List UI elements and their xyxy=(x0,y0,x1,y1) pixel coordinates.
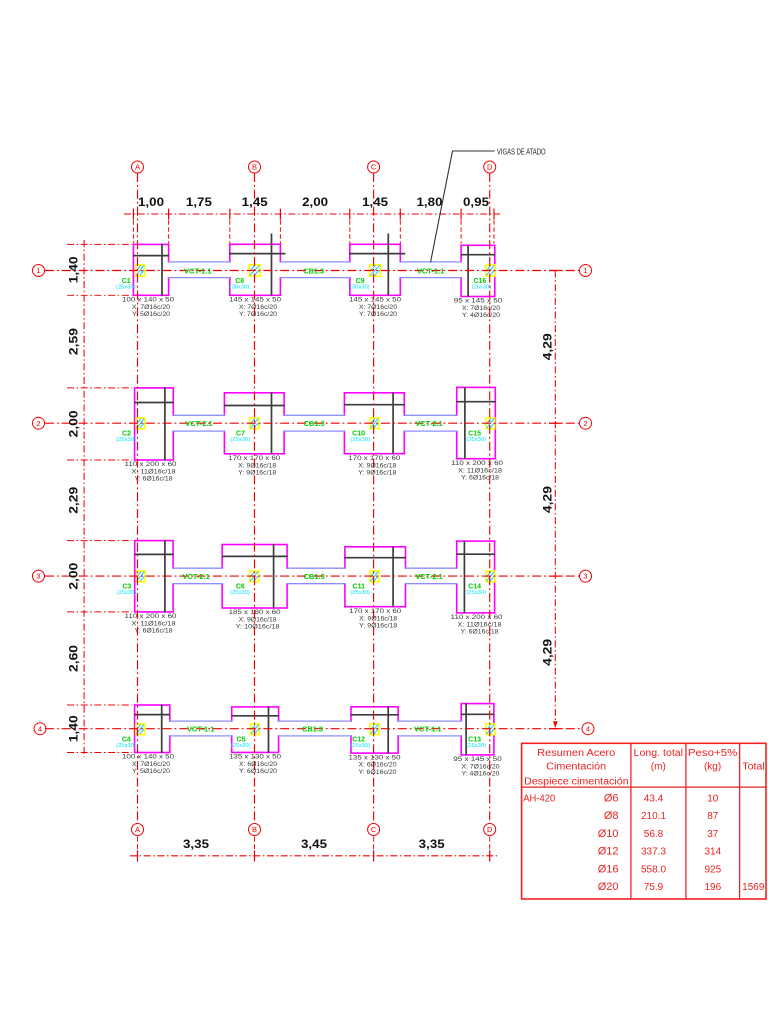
footing C2 pad outline xyxy=(135,388,174,460)
svg-text:VCT-1.1: VCT-1.1 xyxy=(187,727,215,734)
svg-text:X: 11Ø16c/18: X: 11Ø16c/18 xyxy=(458,622,502,629)
table column line 3 xyxy=(739,743,741,899)
svg-text:CB1.3: CB1.3 xyxy=(303,268,324,275)
wall line vertical C5 xyxy=(268,706,270,753)
tie beam VCT-2.1 row 2 between x=404.3 and x=456.7 xyxy=(403,416,458,430)
svg-text:X: 7Ø16c/20: X: 7Ø16c/20 xyxy=(462,764,500,771)
wall line horizontal C6 xyxy=(222,555,288,557)
wall line horizontal C4 xyxy=(134,714,170,716)
svg-text:Long. total: Long. total xyxy=(634,748,684,759)
svg-text:2,00: 2,00 xyxy=(302,195,328,209)
svg-text:CB1.3: CB1.3 xyxy=(304,574,325,581)
svg-text:75.9: 75.9 xyxy=(644,882,664,893)
svg-text:VCT-2.1: VCT-2.1 xyxy=(182,574,210,581)
column section C1 hatched square xyxy=(136,265,145,276)
wall line vertical C12 xyxy=(387,706,389,753)
svg-text:Y: 6Ø16c/20: Y: 6Ø16c/20 xyxy=(359,769,397,776)
footing C8 pad outline xyxy=(230,244,281,295)
top dimension chain line xyxy=(124,213,500,215)
svg-text:185 x 180 x 60: 185 x 180 x 60 xyxy=(229,609,281,616)
bottom dim tick xyxy=(137,850,139,861)
svg-text:4: 4 xyxy=(38,724,42,733)
column section C7 hatched square xyxy=(250,418,259,429)
svg-text:Y: 10Ø16c/18: Y: 10Ø16c/18 xyxy=(236,624,280,631)
top dim extension line xyxy=(399,220,401,243)
column section C9 hatched square xyxy=(370,265,381,276)
svg-text:135 x 130 x 50: 135 x 130 x 50 xyxy=(349,754,401,761)
grid bubble A top xyxy=(132,161,144,173)
grid bubble A bottom xyxy=(132,824,144,836)
grid axis D vertical line xyxy=(489,173,491,824)
wall line horizontal C2 xyxy=(134,402,174,404)
bottom dim tick xyxy=(373,850,375,861)
wall line horizontal C5 xyxy=(231,715,279,717)
grid axis B vertical line xyxy=(254,173,256,824)
svg-text:X: 7Ø16c/20: X: 7Ø16c/20 xyxy=(239,304,277,311)
bottom dim extension line xyxy=(373,837,375,862)
top dim tick xyxy=(229,209,231,220)
svg-text:37: 37 xyxy=(707,829,719,840)
svg-text:VIGAS DE ATADO: VIGAS DE ATADO xyxy=(497,147,546,156)
svg-text:1: 1 xyxy=(36,266,40,275)
svg-text:Resumen Acero: Resumen Acero xyxy=(537,748,615,759)
svg-text:(25x30): (25x30) xyxy=(466,437,486,443)
svg-text:CB1.3: CB1.3 xyxy=(302,727,323,734)
wall line vertical C13 xyxy=(465,703,467,755)
footing C16 pad outline xyxy=(461,245,495,296)
grid axis 3 horizontal line xyxy=(45,575,582,577)
svg-text:X: 6Ø16c/20: X: 6Ø16c/20 xyxy=(359,762,397,769)
svg-text:B: B xyxy=(252,825,257,834)
svg-text:(30x30): (30x30) xyxy=(230,285,250,291)
svg-text:X: 6Ø16c/20: X: 6Ø16c/20 xyxy=(239,761,277,768)
svg-text:1,45: 1,45 xyxy=(362,195,388,209)
wall line vertical C16 xyxy=(467,245,469,297)
grid bubble 1 right xyxy=(580,265,592,277)
wall line vertical C3 xyxy=(164,540,166,612)
footing C6 pad outline xyxy=(222,545,287,609)
svg-text:B: B xyxy=(252,163,257,172)
bottom dim tick xyxy=(254,850,256,861)
svg-text:Y: 5Ø16c/20: Y: 5Ø16c/20 xyxy=(132,311,170,318)
svg-text:Y: 5Ø16c/20: Y: 5Ø16c/20 xyxy=(132,768,170,775)
left dim extension line xyxy=(67,540,132,542)
table column line 1 xyxy=(630,743,632,899)
left dim extension line xyxy=(67,459,132,461)
tie beam VCT-1.1 row 1 between x=400.3 and x=461.1 xyxy=(399,263,462,277)
svg-text:196: 196 xyxy=(704,882,721,893)
svg-text:Ø6: Ø6 xyxy=(604,793,619,805)
svg-text:Y: 9Ø16c/18: Y: 9Ø16c/18 xyxy=(359,622,397,629)
svg-text:3,35: 3,35 xyxy=(419,837,445,851)
grid bubble D top xyxy=(484,161,496,173)
svg-text:210.1: 210.1 xyxy=(641,811,666,822)
grid bubble 4 right xyxy=(582,723,594,735)
grid bubble 1 left xyxy=(33,265,45,277)
svg-text:(30x30): (30x30) xyxy=(350,285,370,291)
bottom dimension chain line xyxy=(130,855,497,857)
footing C11 pad outline xyxy=(345,547,406,607)
grid bubble 3 left xyxy=(33,570,45,582)
bottom dim extension line xyxy=(137,837,139,862)
wall line vertical C7 xyxy=(271,392,273,454)
svg-text:4,29: 4,29 xyxy=(540,333,554,360)
svg-text:2,00: 2,00 xyxy=(67,562,81,589)
column section C10 hatched square xyxy=(370,418,379,429)
svg-text:Peso+5%: Peso+5% xyxy=(688,748,738,759)
footing C15 pad outline xyxy=(457,387,496,458)
svg-text:1569: 1569 xyxy=(742,882,765,893)
svg-text:100 x 140 x 50: 100 x 140 x 50 xyxy=(122,754,174,761)
svg-text:Despiece cimentación: Despiece cimentación xyxy=(524,776,629,787)
grid axis C vertical line xyxy=(373,173,375,824)
wall line horizontal C15 xyxy=(456,401,496,403)
grid bubble B bottom xyxy=(249,824,261,836)
svg-text:Y: 6Ø16c/18: Y: 6Ø16c/18 xyxy=(461,474,499,481)
svg-text:95 x 145 x 50: 95 x 145 x 50 xyxy=(453,756,502,763)
svg-text:110 x 200 x 60: 110 x 200 x 60 xyxy=(451,614,503,621)
top dim tick xyxy=(493,209,495,220)
svg-text:87: 87 xyxy=(707,811,719,822)
svg-text:AH-420: AH-420 xyxy=(523,794,555,805)
svg-text:X: 9Ø16c/18: X: 9Ø16c/18 xyxy=(239,617,277,624)
svg-text:1,00: 1,00 xyxy=(138,195,164,209)
svg-text:95 x 145 x 50: 95 x 145 x 50 xyxy=(454,298,503,305)
grid axis A vertical line xyxy=(137,173,139,824)
table column line 2 xyxy=(685,743,687,899)
top dim tick xyxy=(132,209,134,220)
svg-text:(25x30): (25x30) xyxy=(116,743,136,749)
svg-text:X: 11Ø16c/18: X: 11Ø16c/18 xyxy=(132,469,176,476)
svg-text:X: 9Ø16c/18: X: 9Ø16c/18 xyxy=(238,462,276,469)
tie beam VCT-2.1 row 2 between x=173.3 and x=224.4 xyxy=(172,416,226,430)
svg-text:1,40: 1,40 xyxy=(67,256,81,283)
svg-text:558.0: 558.0 xyxy=(641,864,666,875)
svg-text:4,29: 4,29 xyxy=(540,639,554,666)
svg-text:1,80: 1,80 xyxy=(417,195,443,209)
svg-text:X: 7Ø16c/20: X: 7Ø16c/20 xyxy=(132,761,170,768)
svg-text:Y: 9Ø16c/18: Y: 9Ø16c/18 xyxy=(238,470,276,477)
svg-text:135 x 130 x 50: 135 x 130 x 50 xyxy=(229,754,281,761)
right dim tick xyxy=(550,575,562,577)
svg-text:0,95: 0,95 xyxy=(463,195,489,209)
svg-text:Y: 9Ø16c/18: Y: 9Ø16c/18 xyxy=(358,469,396,476)
footing C9 pad outline xyxy=(350,244,401,295)
svg-text:(25x30): (25x30) xyxy=(117,590,137,596)
svg-text:170 x 170 x 60: 170 x 170 x 60 xyxy=(348,455,400,462)
footing C3 pad outline xyxy=(135,541,173,612)
top dim extension line xyxy=(279,220,281,243)
grid axis 1 horizontal line xyxy=(45,270,582,272)
wall line horizontal C1 xyxy=(133,255,169,257)
left dimension chain line xyxy=(83,240,85,757)
footing C14 pad outline xyxy=(457,541,495,613)
svg-text:VCT-2.1: VCT-2.1 xyxy=(415,421,443,428)
wall line horizontal C11 xyxy=(344,557,406,559)
svg-text:CB1.3: CB1.3 xyxy=(304,421,325,428)
svg-text:VCT-2.1: VCT-2.1 xyxy=(185,421,213,428)
svg-text:Cimentación: Cimentación xyxy=(546,761,606,772)
tie beam VCT-1.1 row 1 between x=168.6 and x=229.8 xyxy=(167,263,231,277)
footing C4 pad outline xyxy=(135,705,170,753)
svg-text:2: 2 xyxy=(583,419,587,428)
left dim extension line xyxy=(67,387,132,389)
svg-text:VCT-1.1: VCT-1.1 xyxy=(184,268,212,275)
top dim tick xyxy=(460,209,462,220)
svg-text:A: A xyxy=(135,825,140,834)
wall line vertical C1 xyxy=(161,244,163,296)
wall line vertical C10 xyxy=(392,392,394,454)
tie beam CB1.3 row 4 between x=278.6 and x=351.0 xyxy=(277,722,352,735)
tie beam CB1.3 row 2 between x=284.1 and x=344.4 xyxy=(283,416,346,430)
top dim tick xyxy=(349,209,351,220)
wall line vertical C6 xyxy=(273,544,275,609)
svg-text:X: 9Ø16c/18: X: 9Ø16c/18 xyxy=(358,462,396,469)
wall line horizontal C3 xyxy=(134,553,173,555)
svg-text:3: 3 xyxy=(583,572,587,581)
svg-text:(m): (m) xyxy=(651,761,666,772)
svg-text:4: 4 xyxy=(586,724,590,733)
svg-text:10: 10 xyxy=(707,794,719,805)
svg-text:1,45: 1,45 xyxy=(242,195,268,209)
svg-text:1,75: 1,75 xyxy=(186,195,212,209)
column section C3 hatched square xyxy=(136,571,145,582)
tie beam VCT-1.1 row 4 between x=398.1 and x=461.2 xyxy=(397,722,463,735)
column section C5 hatched square xyxy=(251,724,260,735)
top dim extension line xyxy=(132,220,134,243)
svg-text:Y: 6Ø16c/18: Y: 6Ø16c/18 xyxy=(461,629,499,636)
svg-text:X: 7Ø16c/20: X: 7Ø16c/20 xyxy=(359,304,397,311)
svg-text:Ø12: Ø12 xyxy=(598,846,619,858)
top dim tick xyxy=(279,209,281,220)
svg-text:Y: 4Ø16c/20: Y: 4Ø16c/20 xyxy=(462,312,500,319)
right dim chain arrowhead xyxy=(553,721,558,728)
svg-text:110 x 200 x 60: 110 x 200 x 60 xyxy=(125,461,177,468)
svg-text:(25x30): (25x30) xyxy=(350,743,370,749)
svg-text:Y: 7Ø16c/20: Y: 7Ø16c/20 xyxy=(239,311,277,318)
bottom dim tick xyxy=(489,850,491,861)
bottom dim extension line xyxy=(489,837,491,862)
grid axis 4 horizontal line xyxy=(45,728,582,730)
grid bubble 2 left xyxy=(33,417,45,429)
svg-text:925: 925 xyxy=(704,864,721,875)
column section C8 hatched square xyxy=(249,265,260,276)
svg-text:170 x 170 x 60: 170 x 170 x 60 xyxy=(349,608,401,615)
svg-text:A: A xyxy=(135,163,140,172)
svg-text:3: 3 xyxy=(36,572,40,581)
svg-text:337.3: 337.3 xyxy=(641,847,666,858)
column section C15 hatched square xyxy=(486,418,495,429)
column section C16 hatched square xyxy=(486,265,495,276)
svg-text:X: 7Ø16c/20: X: 7Ø16c/20 xyxy=(132,304,170,311)
right dim tick xyxy=(550,422,562,424)
left dim extension line xyxy=(67,752,132,754)
grid axis 2 horizontal line xyxy=(45,422,582,424)
footing C5 pad outline xyxy=(232,707,279,753)
wall line horizontal C7 xyxy=(224,405,285,407)
wall line vertical C8 xyxy=(271,234,273,296)
svg-text:Y: 4Ø16c/20: Y: 4Ø16c/20 xyxy=(462,771,500,778)
svg-text:145 x 145 x 50: 145 x 145 x 50 xyxy=(349,297,401,304)
column section C2 hatched square xyxy=(136,418,145,429)
svg-text:3,35: 3,35 xyxy=(183,837,209,851)
svg-text:C: C xyxy=(371,163,377,172)
svg-text:(25x30): (25x30) xyxy=(230,437,250,443)
top dim extension line xyxy=(493,220,495,243)
svg-text:(25x30): (25x30) xyxy=(350,437,370,443)
svg-text:D: D xyxy=(487,163,493,172)
svg-text:Y: 6Ø16c/20: Y: 6Ø16c/20 xyxy=(239,768,277,775)
top dim extension line xyxy=(229,220,231,243)
svg-text:Y: 6Ø16c/18: Y: 6Ø16c/18 xyxy=(135,628,173,635)
grid bubble C bottom xyxy=(368,824,380,836)
column section C12 hatched square xyxy=(370,724,379,735)
top dim tick xyxy=(399,209,401,220)
svg-text:VCT-1.1: VCT-1.1 xyxy=(417,268,445,275)
svg-text:314: 314 xyxy=(704,847,721,858)
footing C7 pad outline xyxy=(224,393,284,454)
wall line vertical C9 xyxy=(387,234,389,296)
grid bubble 2 right xyxy=(580,417,592,429)
wall line horizontal C8 xyxy=(229,253,285,255)
column section C14 hatched square xyxy=(486,571,495,582)
footing C13 pad outline xyxy=(461,704,494,755)
svg-text:170 x 170 x 60: 170 x 170 x 60 xyxy=(228,455,280,462)
svg-text:VCT-2.1: VCT-2.1 xyxy=(415,574,443,581)
svg-text:2,59: 2,59 xyxy=(67,328,81,355)
svg-text:X: 11Ø16c/18: X: 11Ø16c/18 xyxy=(458,467,502,474)
steel summary table frame xyxy=(522,743,766,899)
svg-text:110 x 200 x 60: 110 x 200 x 60 xyxy=(125,613,177,620)
svg-text:Total: Total xyxy=(742,761,765,772)
wall line vertical C2 xyxy=(164,387,166,460)
leader line to tie beam xyxy=(431,151,495,263)
svg-text:X: 11Ø16c/18: X: 11Ø16c/18 xyxy=(132,621,176,628)
left dim extension line xyxy=(67,243,132,245)
svg-text:Ø20: Ø20 xyxy=(598,881,619,893)
svg-text:(25x30): (25x30) xyxy=(116,437,136,443)
svg-text:43.4: 43.4 xyxy=(644,794,664,805)
svg-text:(25x30): (25x30) xyxy=(116,285,136,291)
svg-text:VCT-1.1: VCT-1.1 xyxy=(414,727,442,734)
svg-text:100 x 140 x 50: 100 x 140 x 50 xyxy=(122,297,174,304)
svg-text:Ø8: Ø8 xyxy=(604,810,619,822)
svg-text:2,60: 2,60 xyxy=(67,645,81,672)
grid bubble B top xyxy=(249,161,261,173)
top dim tick xyxy=(168,209,170,220)
tie beam CB1.3 row 1 between x=280.4 and x=349.8 xyxy=(279,263,351,277)
svg-text:4,29: 4,29 xyxy=(540,486,554,513)
svg-text:(kg): (kg) xyxy=(704,761,721,772)
right dim tick xyxy=(550,270,562,272)
column section C13 hatched square xyxy=(486,724,495,735)
svg-text:Y: 6Ø16c/18: Y: 6Ø16c/18 xyxy=(135,476,173,483)
grid bubble 3 right xyxy=(580,570,592,582)
svg-text:Y: 7Ø16c/20: Y: 7Ø16c/20 xyxy=(359,311,397,318)
column section C4 hatched square xyxy=(136,724,145,735)
wall line vertical C11 xyxy=(392,546,394,607)
column section C6 hatched square xyxy=(250,571,259,582)
wall line horizontal C13 xyxy=(461,713,495,715)
right dimension chain line xyxy=(554,271,556,723)
grid bubble C top xyxy=(368,161,380,173)
svg-text:3,45: 3,45 xyxy=(301,837,327,851)
svg-text:(25x30): (25x30) xyxy=(466,743,486,749)
footing C10 pad outline xyxy=(344,393,404,454)
svg-text:2,00: 2,00 xyxy=(67,410,81,437)
svg-text:(25x30): (25x30) xyxy=(230,590,250,596)
top dim extension line xyxy=(349,220,351,243)
svg-text:56.8: 56.8 xyxy=(644,829,664,840)
svg-text:2: 2 xyxy=(36,419,40,428)
left dim extension line xyxy=(67,704,132,706)
grid bubble 4 left xyxy=(34,723,46,735)
wall line vertical C4 xyxy=(161,705,163,754)
wall line vertical C14 xyxy=(463,541,465,614)
left dim extension line xyxy=(67,611,132,613)
table header separator xyxy=(522,786,766,788)
svg-text:(25x30): (25x30) xyxy=(472,285,492,291)
top dim extension line xyxy=(460,220,462,243)
column section C11 hatched square xyxy=(370,571,379,582)
svg-text:X: 7Ø16c/20: X: 7Ø16c/20 xyxy=(462,305,500,312)
wall line horizontal C14 xyxy=(456,553,495,555)
svg-text:(25x30): (25x30) xyxy=(231,743,251,749)
svg-text:2,29: 2,29 xyxy=(67,486,81,513)
svg-text:D: D xyxy=(487,825,493,834)
svg-text:Ø10: Ø10 xyxy=(598,828,619,840)
tie beam CB1.3 row 3 between x=287.1 and x=344.9 xyxy=(286,569,346,583)
grid bubble D bottom xyxy=(484,824,496,836)
svg-text:Ø16: Ø16 xyxy=(598,863,619,875)
svg-text:X: 9Ø16c/18: X: 9Ø16c/18 xyxy=(359,615,397,622)
tie beam VCT-2.1 row 3 between x=173.1 and x=222.2 xyxy=(172,569,224,583)
footing C1 pad outline xyxy=(133,244,168,295)
left dim extension line xyxy=(67,294,132,296)
svg-text:(25x30): (25x30) xyxy=(466,590,486,596)
svg-text:C: C xyxy=(371,825,377,834)
right dim tick xyxy=(550,728,562,730)
svg-text:1: 1 xyxy=(583,266,587,275)
footing C12 pad outline xyxy=(351,707,398,753)
bottom dim extension line xyxy=(254,837,256,862)
wall line horizontal C12 xyxy=(351,714,399,716)
svg-text:(25x30): (25x30) xyxy=(350,590,370,596)
svg-text:1,40: 1,40 xyxy=(67,715,81,742)
top dim extension line xyxy=(168,220,170,243)
svg-text:145 x 145 x 50: 145 x 145 x 50 xyxy=(229,297,281,304)
tie beam VCT-1.1 row 4 between x=169.8 and x=231.7 xyxy=(169,722,234,735)
wall line horizontal C10 xyxy=(344,404,405,406)
wall line horizontal C9 xyxy=(349,253,405,255)
tie beam VCT-2.1 row 3 between x=405.5 and x=456.7 xyxy=(404,569,458,583)
wall line horizontal C16 xyxy=(461,254,496,256)
wall line vertical C15 xyxy=(464,387,466,459)
svg-text:110 x 200 x 60: 110 x 200 x 60 xyxy=(451,460,503,467)
